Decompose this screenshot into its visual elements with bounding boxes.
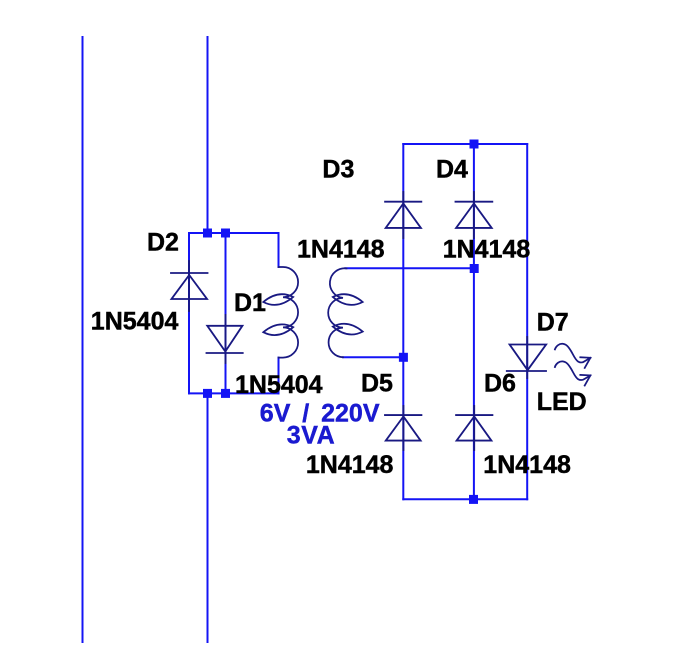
wire loop bottom bbox=[189, 392, 279, 394]
node junction bridge top bbox=[470, 140, 479, 149]
svg-text:1N5404: 1N5404 bbox=[91, 308, 179, 336]
svg-text:D5: D5 bbox=[361, 370, 393, 398]
svg-text:D6: D6 bbox=[484, 370, 516, 398]
node junction loop bottom left bbox=[203, 389, 212, 398]
node junction secondary top at D4 column bbox=[470, 264, 479, 273]
node junction loop top left bbox=[203, 229, 212, 238]
svg-text:LED: LED bbox=[537, 388, 587, 416]
wire D1 branch bbox=[225, 233, 227, 393]
wire secondary bottom bbox=[343, 356, 404, 358]
diode D1 bbox=[207, 315, 243, 363]
wire bridge top bbox=[403, 143, 527, 145]
svg-text:D7: D7 bbox=[537, 309, 569, 337]
svg-text:1N5404: 1N5404 bbox=[235, 371, 323, 399]
LED D7 bbox=[507, 337, 546, 378]
wire loop top bbox=[189, 232, 279, 234]
diode D5 bbox=[385, 406, 421, 450]
node junction loop bottom right bbox=[221, 389, 230, 398]
wire D3 D5 column bbox=[402, 144, 404, 499]
wire D4 D6 column bbox=[473, 144, 475, 499]
svg-text:D1: D1 bbox=[234, 289, 266, 317]
wire loop left bbox=[188, 233, 190, 393]
svg-text:1N4148: 1N4148 bbox=[297, 236, 385, 264]
wire mains rail L bbox=[82, 37, 84, 642]
LED light arrow 1 bbox=[555, 344, 591, 368]
diode D3 bbox=[385, 192, 421, 238]
wire secondary top bbox=[346, 267, 475, 269]
wire primary bottom stub bbox=[278, 358, 280, 394]
svg-text:1N4148: 1N4148 bbox=[443, 236, 531, 264]
svg-text:1N4148: 1N4148 bbox=[306, 451, 394, 479]
svg-text:D4: D4 bbox=[436, 156, 468, 184]
transformer primary winding bbox=[263, 267, 298, 358]
node junction secondary bottom at D3 column bbox=[399, 353, 408, 362]
LED light arrow 2 bbox=[555, 361, 591, 385]
svg-text:3VA: 3VA bbox=[287, 422, 336, 450]
wire bridge bottom bbox=[403, 498, 527, 500]
svg-text:D3: D3 bbox=[322, 156, 354, 184]
node junction loop top right bbox=[221, 229, 230, 238]
svg-text:1N4148: 1N4148 bbox=[483, 451, 571, 479]
wire D7 column bbox=[526, 144, 528, 499]
diode D4 bbox=[456, 192, 493, 238]
transformer secondary winding bbox=[328, 268, 363, 357]
svg-text:D2: D2 bbox=[147, 229, 179, 257]
node junction bridge bottom bbox=[469, 495, 478, 504]
diode D2 bbox=[171, 261, 208, 311]
wire mains rail N lower bbox=[207, 393, 209, 642]
diode D6 bbox=[456, 406, 492, 450]
wire primary top stub bbox=[278, 233, 280, 267]
wire mains rail N upper bbox=[207, 37, 209, 233]
